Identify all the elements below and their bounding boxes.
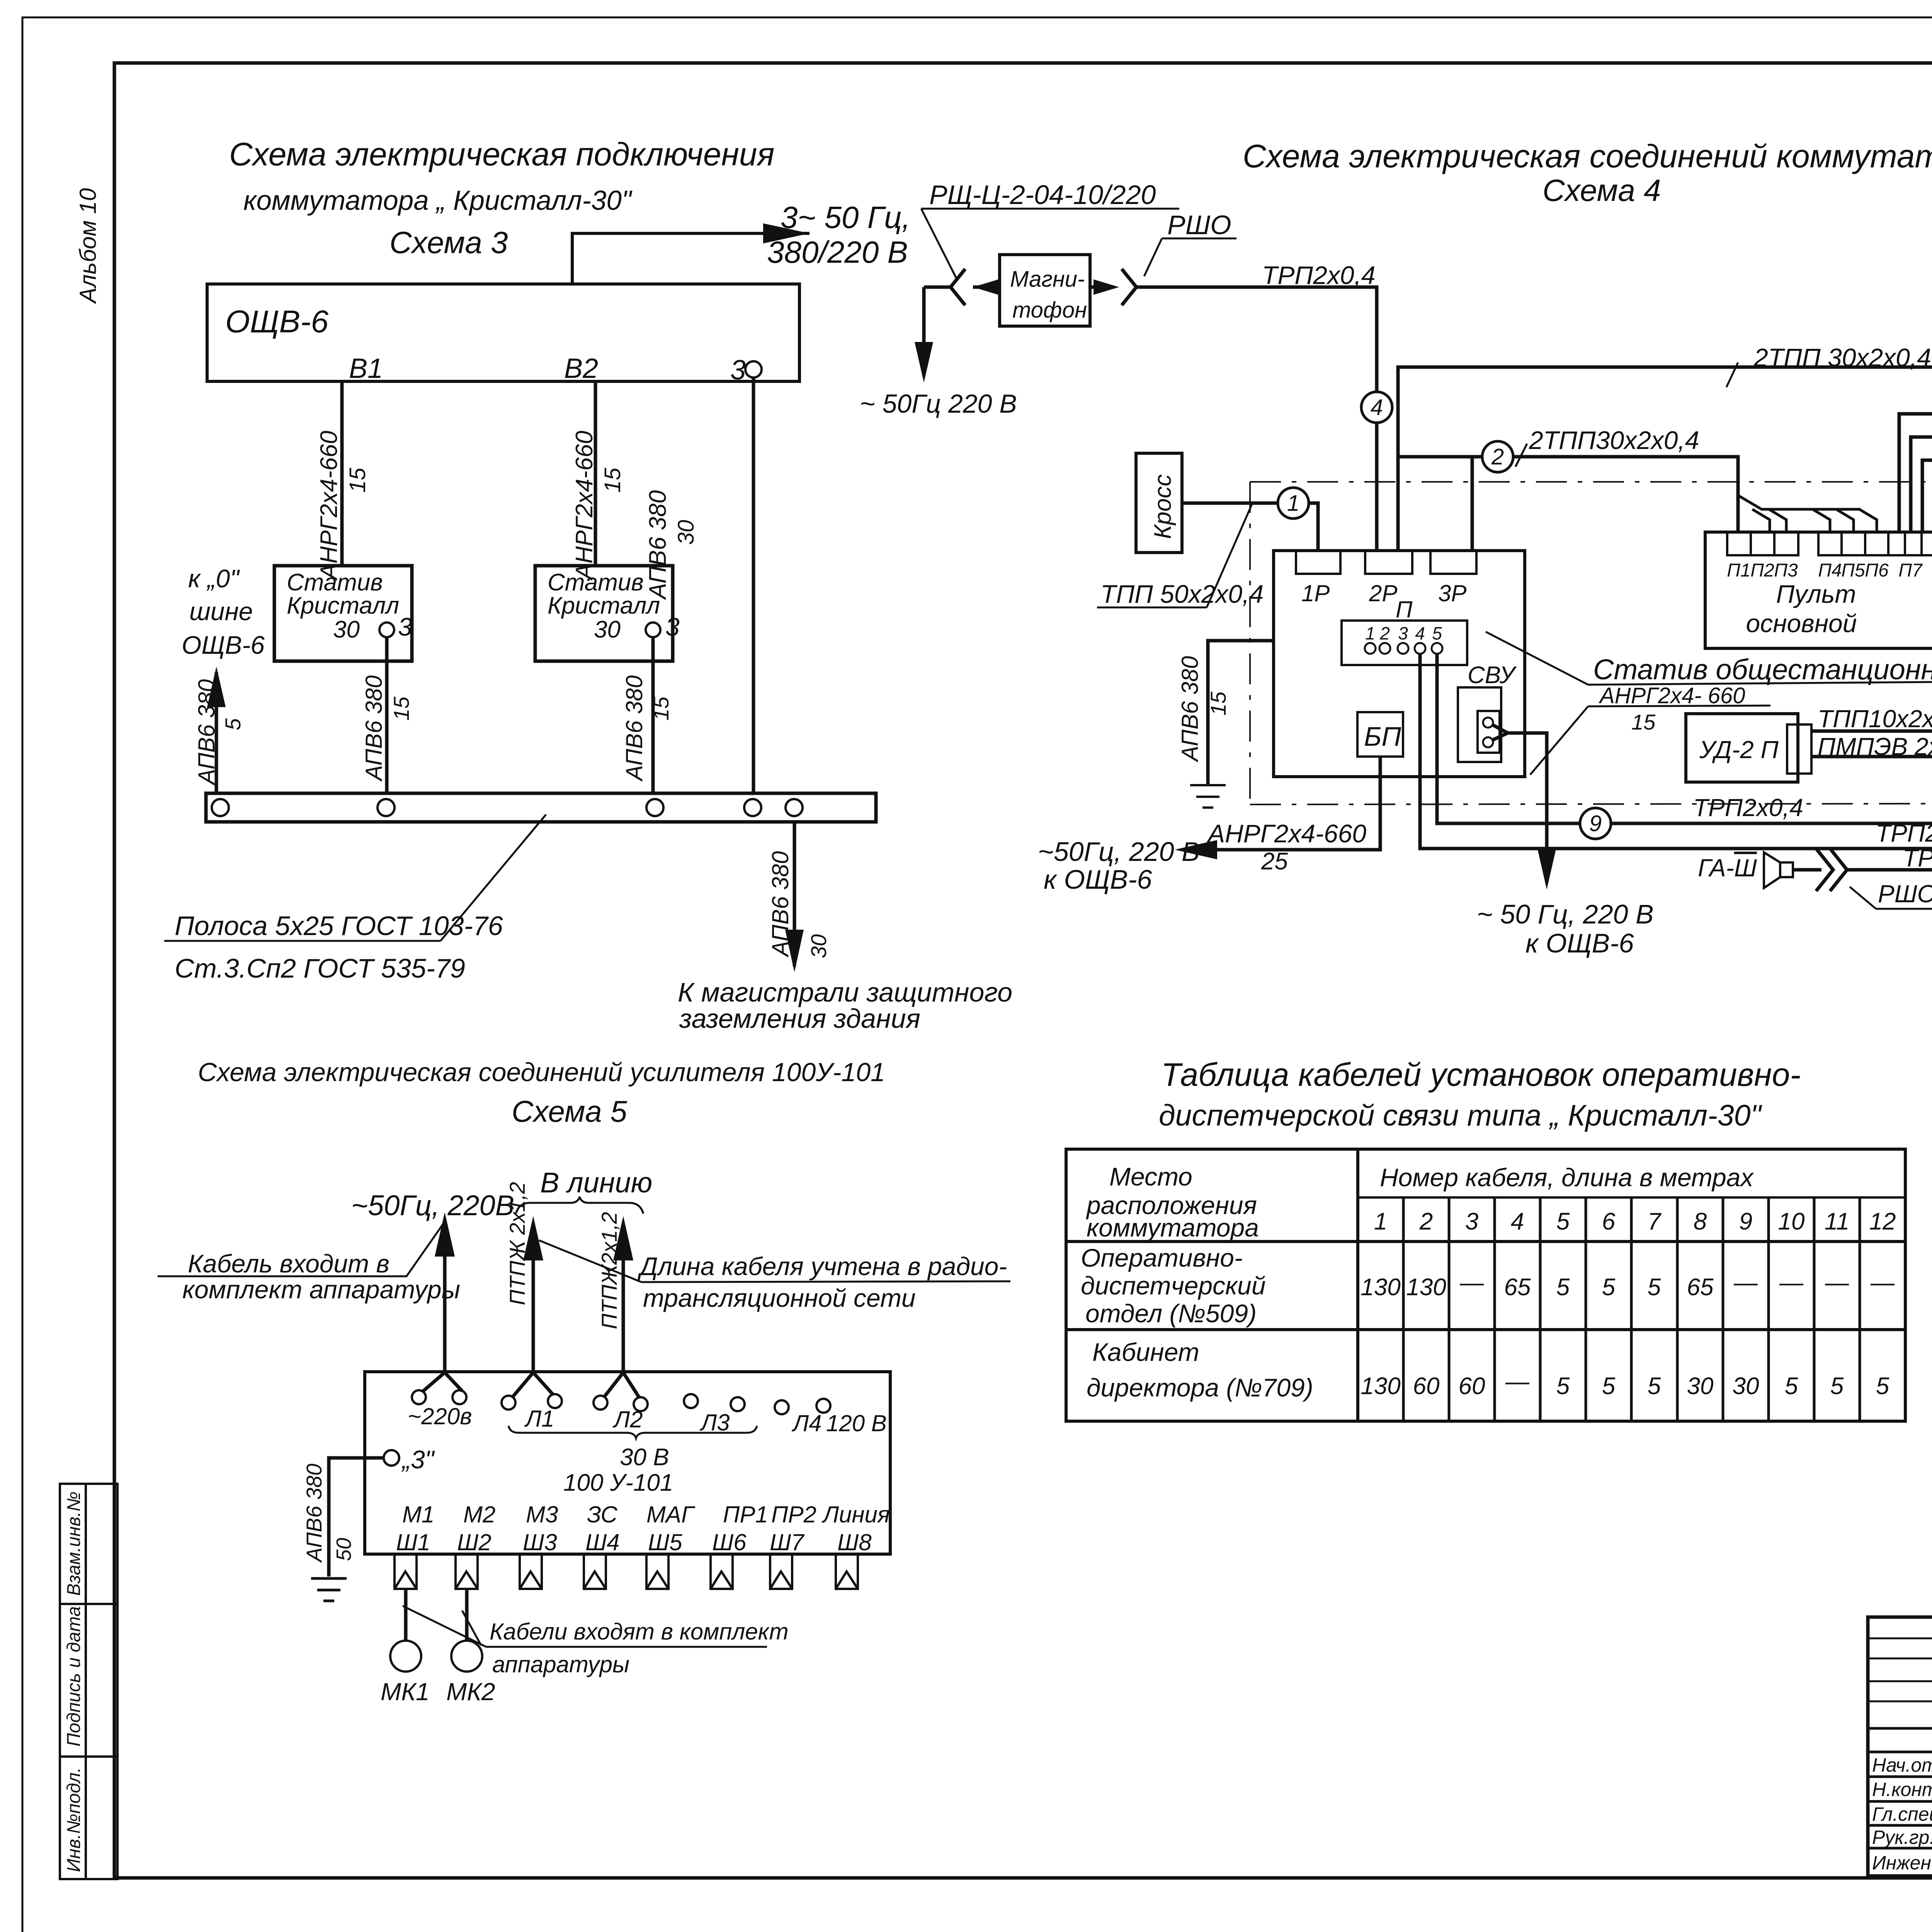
svg-text:АПВ6 380: АПВ6 380 (1177, 656, 1203, 762)
svg-text:АНРГ2х4- 660: АНРГ2х4- 660 (1599, 683, 1745, 708)
svg-text:10: 10 (1778, 1208, 1805, 1235)
svg-text:4: 4 (1511, 1208, 1524, 1235)
svg-text:Схема электрическая подключ: Схема электрическая подключения (229, 136, 774, 172)
svg-text:30: 30 (333, 616, 360, 643)
svg-text:ТПП10х2х0,4: ТПП10х2х0,4 (1818, 705, 1932, 733)
svg-text:шине: шине (189, 597, 253, 626)
svg-text:1: 1 (1374, 1208, 1387, 1235)
svg-text:В линию: В линию (540, 1167, 652, 1199)
svg-text:—: — (1459, 1269, 1484, 1296)
svg-text:25: 25 (1261, 848, 1288, 875)
svg-text:„3": „3" (401, 1445, 435, 1474)
svg-text:АПВ6 380: АПВ6 380 (302, 1464, 326, 1563)
svg-text:РШО: РШО (1878, 880, 1932, 908)
svg-text:тофон: тофон (1012, 298, 1087, 323)
svg-text:—: — (1505, 1368, 1530, 1395)
svg-text:5: 5 (1556, 1274, 1570, 1301)
svg-text:П2: П2 (1750, 560, 1774, 581)
svg-text:2ТПП30х2х0,4: 2ТПП30х2х0,4 (1529, 426, 1699, 454)
svg-text:Нач.отд.: Нач.отд. (1872, 1754, 1932, 1776)
svg-text:9: 9 (1739, 1208, 1752, 1235)
svg-text:2ТПП 30х2х0,4: 2ТПП 30х2х0,4 (1753, 343, 1931, 372)
svg-text:3: 3 (398, 612, 412, 641)
svg-text:380/220 В: 380/220 В (767, 235, 908, 269)
svg-text:М1: М1 (402, 1502, 434, 1527)
svg-text:5: 5 (1830, 1373, 1844, 1400)
svg-text:Место: Место (1109, 1162, 1192, 1191)
svg-text:15: 15 (600, 468, 625, 493)
svg-text:П6: П6 (1865, 560, 1889, 581)
svg-text:Гл.спец.: Гл.спец. (1872, 1803, 1932, 1825)
svg-text:30: 30 (1733, 1373, 1759, 1400)
svg-text:4: 4 (1415, 623, 1425, 643)
svg-text:30: 30 (594, 616, 621, 643)
svg-text:Взам.инв.№: Взам.инв.№ (64, 1492, 84, 1596)
svg-text:1: 1 (1287, 491, 1299, 516)
svg-text:АПВ6 380: АПВ6 380 (621, 675, 647, 782)
svg-text:Ст.3.Сп2 ГОСТ 535-79: Ст.3.Сп2 ГОСТ 535-79 (175, 953, 465, 983)
svg-text:В1: В1 (349, 353, 383, 384)
svg-text:5: 5 (221, 718, 245, 730)
svg-text:Л3: Л3 (699, 1410, 730, 1435)
svg-text:ТРП2х0,4: ТРП2х0,4 (1693, 794, 1803, 821)
svg-text:Номер кабеля, длина в метрах: Номер кабеля, длина в метрах (1380, 1163, 1754, 1192)
svg-text:Ш5: Ш5 (648, 1529, 682, 1555)
svg-text:5: 5 (1556, 1208, 1570, 1235)
svg-text:Подпись и дата: Подпись и дата (64, 1606, 84, 1747)
svg-text:~ 50Гц 220 В: ~ 50Гц 220 В (860, 389, 1017, 418)
svg-text:~220в: ~220в (408, 1403, 472, 1429)
svg-text:2: 2 (1491, 444, 1504, 469)
svg-text:В2: В2 (564, 353, 598, 384)
svg-text:Схема электрическая соединен: Схема электрическая соединений коммутато… (1243, 138, 1932, 174)
svg-text:—: — (1733, 1269, 1758, 1296)
svg-text:АНРГ2х4-660: АНРГ2х4-660 (1206, 819, 1366, 848)
svg-text:3: 3 (730, 355, 746, 386)
svg-text:Кристалл: Кристалл (287, 592, 399, 619)
svg-text:Ш4: Ш4 (585, 1529, 620, 1555)
svg-text:Ш3: Ш3 (523, 1529, 557, 1555)
svg-text:Л2: Л2 (612, 1406, 643, 1432)
svg-text:ОЩВ-6: ОЩВ-6 (182, 631, 265, 659)
svg-text:ТРП2х0,4: ТРП2х0,4 (1876, 819, 1932, 847)
svg-text:Рук.гр.: Рук.гр. (1872, 1827, 1932, 1848)
svg-text:5: 5 (1602, 1373, 1616, 1400)
svg-text:120 В: 120 В (826, 1410, 887, 1436)
svg-text:2Р: 2Р (1369, 580, 1397, 606)
svg-text:Линия: Линия (821, 1502, 890, 1527)
svg-text:1: 1 (1365, 623, 1375, 643)
svg-text:3~ 50 Гц,: 3~ 50 Гц, (781, 200, 910, 235)
svg-text:РЩ-Ц-2-04-10/220: РЩ-Ц-2-04-10/220 (929, 180, 1156, 210)
svg-text:М2: М2 (463, 1502, 495, 1527)
svg-text:коммутатора „ Кристалл-30": коммутатора „ Кристалл-30" (243, 185, 633, 216)
svg-text:Полоса 5х25 ГОСТ 103-76: Полоса 5х25 ГОСТ 103-76 (175, 911, 503, 941)
svg-text:ТПП 50х2х0,4: ТПП 50х2х0,4 (1100, 580, 1264, 608)
svg-text:15: 15 (345, 468, 370, 493)
svg-text:БП: БП (1364, 721, 1401, 752)
svg-text:130: 130 (1406, 1274, 1446, 1301)
svg-text:СВУ: СВУ (1468, 662, 1517, 689)
svg-text:к „0": к „0" (188, 564, 240, 593)
svg-text:30 В: 30 В (620, 1444, 669, 1471)
svg-text:Схема 5: Схема 5 (512, 1094, 627, 1128)
svg-text:Пульт: Пульт (1776, 580, 1856, 608)
svg-text:Схема 3: Схема 3 (389, 225, 508, 260)
svg-text:ГА-Ш: ГА-Ш (1698, 854, 1757, 882)
svg-text:6: 6 (1602, 1208, 1616, 1235)
svg-text:ПР1: ПР1 (723, 1502, 768, 1527)
svg-text:Альбом 10: Альбом 10 (75, 188, 101, 304)
svg-text:—: — (1779, 1269, 1804, 1296)
svg-text:Таблица кабелей установок: Таблица кабелей установок оперативно- (1161, 1056, 1801, 1093)
svg-text:1Р: 1Р (1301, 580, 1330, 606)
svg-text:П4: П4 (1818, 560, 1842, 581)
svg-text:12: 12 (1869, 1208, 1896, 1235)
svg-text:П3: П3 (1774, 560, 1798, 581)
svg-text:ПТПЖ2х1,2: ПТПЖ2х1,2 (597, 1212, 621, 1329)
svg-text:5: 5 (1648, 1274, 1661, 1301)
svg-text:7: 7 (1648, 1208, 1662, 1235)
svg-text:Инв.№подл.: Инв.№подл. (64, 1767, 84, 1872)
svg-text:4: 4 (1371, 395, 1383, 420)
svg-text:директора (№709): директора (№709) (1087, 1373, 1313, 1402)
svg-text:3: 3 (1465, 1208, 1478, 1235)
svg-text:диспетчерской связи типа „ К: диспетчерской связи типа „ Кристалл-30" (1159, 1099, 1762, 1132)
svg-text:МАГ: МАГ (646, 1502, 696, 1527)
svg-text:Кабинет: Кабинет (1092, 1338, 1199, 1366)
svg-text:АПВ6 380: АПВ6 380 (194, 679, 219, 786)
svg-text:УД-2 П: УД-2 П (1699, 736, 1779, 764)
svg-text:5: 5 (1876, 1373, 1889, 1400)
svg-text:Статив: Статив (548, 569, 644, 596)
svg-text:15: 15 (1206, 691, 1230, 716)
svg-text:5: 5 (1432, 623, 1442, 643)
svg-text:3Р: 3Р (1438, 580, 1466, 606)
svg-text:5: 5 (1648, 1373, 1661, 1400)
svg-text:5: 5 (1556, 1373, 1570, 1400)
svg-text:5: 5 (1785, 1373, 1798, 1400)
svg-text:МК2: МК2 (446, 1678, 495, 1706)
svg-text:30: 30 (806, 934, 831, 958)
svg-text:60: 60 (1459, 1373, 1485, 1400)
svg-text:100 У-101: 100 У-101 (563, 1469, 673, 1496)
svg-text:Н.контр.: Н.контр. (1872, 1779, 1932, 1800)
svg-text:2: 2 (1379, 623, 1390, 643)
svg-text:8: 8 (1694, 1208, 1707, 1235)
svg-text:АНРГ2х4-660: АНРГ2х4-660 (571, 431, 598, 581)
svg-text:3: 3 (665, 612, 680, 641)
svg-text:АНРГ2х4-660: АНРГ2х4-660 (316, 431, 342, 581)
svg-text:Длина кабеля учтена в радио-: Длина кабеля учтена в радио- (637, 1252, 1007, 1281)
svg-text:15: 15 (1631, 710, 1656, 734)
svg-text:65: 65 (1687, 1274, 1714, 1301)
svg-text:Оперативно-: Оперативно- (1081, 1243, 1243, 1272)
svg-text:аппаратуры: аппаратуры (492, 1651, 629, 1677)
svg-text:АПВ6 380: АПВ6 380 (645, 490, 671, 600)
svg-text:П7: П7 (1898, 560, 1923, 581)
svg-text:ТРП2х0,4: ТРП2х0,4 (1903, 844, 1932, 872)
svg-text:АПВ6 380: АПВ6 380 (767, 851, 793, 957)
svg-text:основной: основной (1746, 609, 1857, 638)
svg-text:130: 130 (1361, 1373, 1400, 1400)
svg-text:К магистрали защитного: К магистрали защитного (678, 977, 1012, 1007)
svg-text:ПМПЭВ 2х0,5: ПМПЭВ 2х0,5 (1818, 733, 1932, 760)
svg-text:Ш6: Ш6 (712, 1529, 747, 1555)
svg-text:ПР2: ПР2 (771, 1502, 816, 1527)
svg-text:МК1: МК1 (381, 1678, 430, 1706)
svg-text:~ 50 Гц, 220 В: ~ 50 Гц, 220 В (1477, 899, 1654, 929)
svg-text:АПВ6 380: АПВ6 380 (361, 675, 387, 782)
svg-text:130: 130 (1361, 1274, 1400, 1301)
svg-text:11: 11 (1825, 1208, 1849, 1235)
svg-text:Схема электрическая соединен: Схема электрическая соединений усилителя… (198, 1058, 885, 1087)
svg-text:—: — (1825, 1269, 1849, 1296)
svg-text:—: — (1870, 1269, 1895, 1296)
svg-text:5: 5 (1602, 1274, 1616, 1301)
svg-text:50: 50 (332, 1538, 355, 1561)
svg-text:15: 15 (389, 696, 413, 721)
svg-text:30: 30 (673, 520, 699, 545)
svg-text:ЗС: ЗС (587, 1502, 618, 1527)
svg-text:М3: М3 (526, 1502, 558, 1527)
svg-text:Инженер: Инженер (1872, 1852, 1932, 1874)
svg-text:Л4: Л4 (791, 1410, 822, 1436)
svg-text:Магни-: Магни- (1010, 267, 1085, 292)
svg-text:2: 2 (1419, 1208, 1433, 1235)
svg-text:комплект аппаратуры: комплект аппаратуры (182, 1275, 460, 1304)
svg-text:65: 65 (1504, 1274, 1531, 1301)
svg-text:Статив: Статив (287, 569, 383, 596)
svg-text:П: П (1396, 597, 1413, 622)
svg-text:Кросс: Кросс (1150, 474, 1176, 539)
svg-text:9: 9 (1589, 811, 1602, 836)
svg-text:ПТПЖ 2х1,2: ПТПЖ 2х1,2 (505, 1182, 529, 1305)
svg-text:коммутатора: коммутатора (1087, 1213, 1259, 1242)
svg-text:3: 3 (1398, 623, 1408, 643)
svg-text:диспетчерский: диспетчерский (1081, 1271, 1266, 1300)
svg-text:~50Гц, 220В: ~50Гц, 220В (351, 1189, 514, 1221)
svg-text:Ш7: Ш7 (770, 1529, 805, 1555)
svg-text:отдел (№509): отдел (№509) (1085, 1299, 1257, 1328)
svg-text:Кристалл: Кристалл (548, 592, 660, 619)
svg-text:60: 60 (1413, 1373, 1440, 1400)
svg-text:РШО: РШО (1167, 210, 1231, 240)
svg-text:Кабель входит в: Кабель входит в (188, 1249, 389, 1278)
svg-text:30: 30 (1687, 1373, 1714, 1400)
svg-text:15: 15 (649, 696, 673, 721)
svg-text:Л1: Л1 (524, 1406, 554, 1432)
svg-text:к ОЩВ-6: к ОЩВ-6 (1044, 864, 1152, 895)
svg-text:к ОЩВ-6: к ОЩВ-6 (1526, 928, 1634, 958)
svg-text:Ш2: Ш2 (457, 1529, 492, 1555)
svg-text:Схема 4: Схема 4 (1543, 173, 1661, 207)
svg-text:ТРП2х0,4: ТРП2х0,4 (1262, 261, 1376, 289)
svg-text:~50Гц, 220 В: ~50Гц, 220 В (1038, 837, 1200, 867)
svg-text:П1: П1 (1727, 560, 1750, 581)
svg-text:Ш1: Ш1 (396, 1529, 430, 1555)
svg-text:Статив общестанционный: Статив общестанционный (1593, 653, 1932, 685)
svg-text:Кабели входят в комплект: Кабели входят в комплект (490, 1619, 789, 1645)
svg-text:заземления здания: заземления здания (679, 1003, 920, 1034)
svg-text:П5: П5 (1841, 560, 1865, 581)
svg-text:Ш8: Ш8 (837, 1529, 872, 1555)
svg-text:ОЩВ-6: ОЩВ-6 (225, 304, 328, 339)
svg-text:трансляционной сети: трансляционной сети (643, 1284, 916, 1312)
